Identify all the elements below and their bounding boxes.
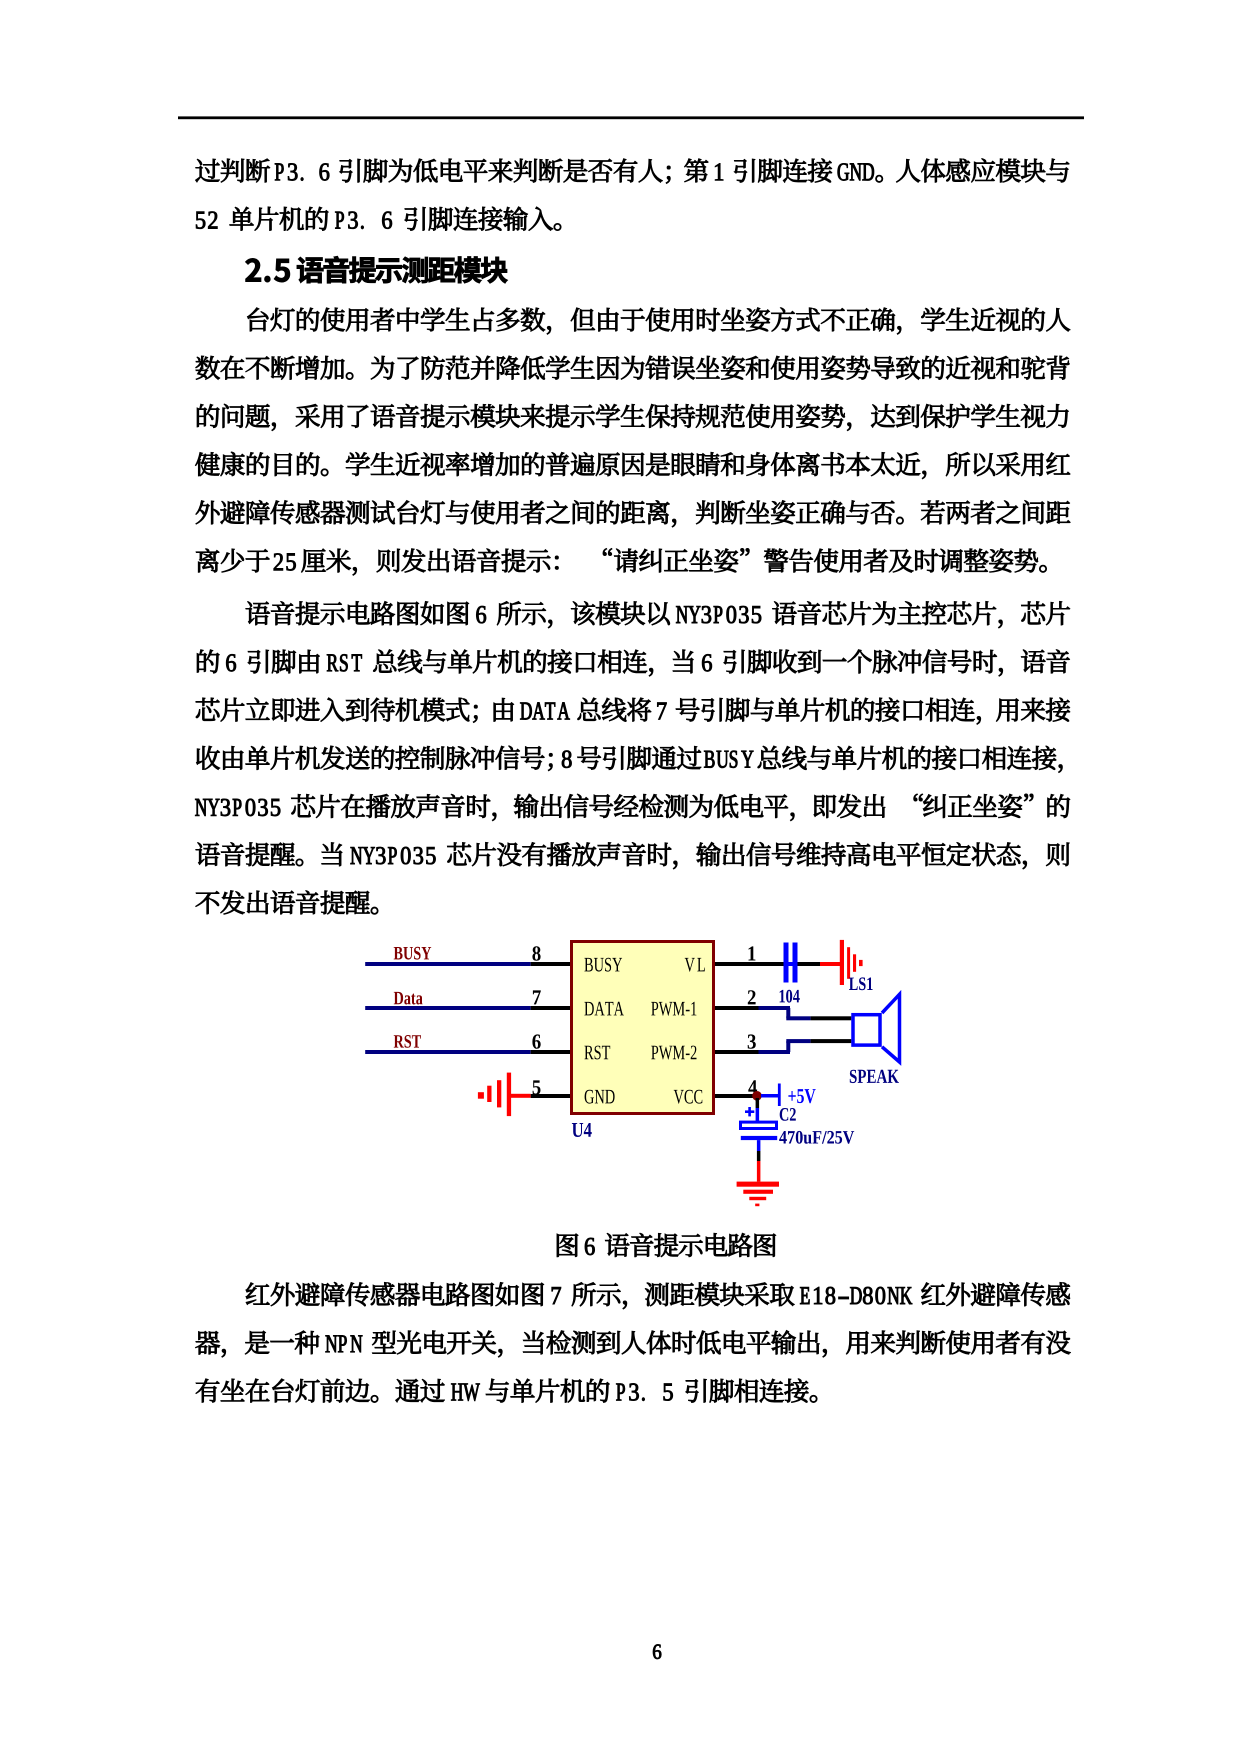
speaker ground symbol LS1 (rotated, red) — [840, 940, 863, 985]
pin 2 wire (PWM-1) — [715, 1006, 759, 1010]
capacitor 104 plates — [784, 943, 789, 983]
junction dot — [752, 1091, 762, 1101]
pin number 1 — [749, 946, 756, 960]
pin number 7 — [533, 990, 541, 1004]
designator C2 — [780, 1108, 796, 1121]
chip pin name GND — [585, 1090, 615, 1104]
pin number 4 — [748, 1080, 757, 1094]
net label Data — [394, 992, 423, 1005]
chip pin name PWM-2 — [651, 1046, 696, 1060]
chip pin name DATA — [584, 1002, 623, 1016]
capacitor C2 plates — [741, 1122, 777, 1128]
speaker SPEAK symbol — [853, 1015, 880, 1045]
pin number 6 — [532, 1034, 540, 1048]
op chip U4 NY3P035 body — [572, 942, 714, 1114]
net label BUSY — [394, 947, 432, 960]
pin number 8 — [532, 946, 540, 960]
net label RST — [394, 1035, 421, 1048]
pin 1 wire (VL) — [715, 962, 784, 966]
header rule — [178, 116, 1084, 119]
+5V power symbol — [761, 1094, 778, 1098]
chip pin name PWM-1 — [651, 1002, 696, 1016]
pin number 2 — [748, 990, 756, 1004]
ground symbol (red) — [737, 1182, 779, 1207]
chip pin name RST — [584, 1046, 610, 1060]
chip pin name VL — [685, 958, 705, 972]
wire net Data (pin 7) — [365, 1006, 531, 1010]
pin 3 wire (PWM-2) — [715, 1050, 759, 1054]
wire junction to C2 — [756, 1098, 760, 1108]
chip reference designator U4 — [572, 1123, 592, 1137]
pin stubs (black) left side — [531, 962, 570, 966]
label SPEAK — [850, 1070, 899, 1083]
pin number 3 — [748, 1034, 756, 1048]
C2 polarity plus — [745, 1110, 754, 1113]
pin 4 wire (VCC) — [715, 1094, 757, 1098]
capacitor value 104 — [780, 990, 800, 1003]
wire net RST (pin 6) — [365, 1050, 531, 1054]
chip pin name VCC — [674, 1090, 703, 1104]
designator LS1 — [849, 977, 873, 990]
wire C2 to ground — [757, 1140, 761, 1151]
chip pin name BUSY — [584, 958, 622, 972]
ground symbol at pin 5 (rotated, red) — [478, 1073, 531, 1117]
value 470uF/25V — [779, 1131, 854, 1144]
wire net BUSY (pin 8) — [365, 962, 531, 966]
pin number 5 — [533, 1080, 541, 1094]
